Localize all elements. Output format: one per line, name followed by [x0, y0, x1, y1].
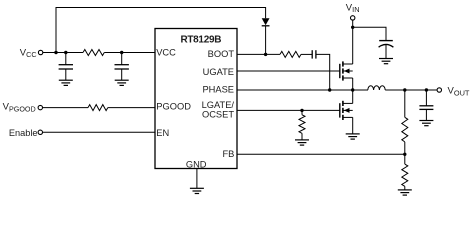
wire VIN to input cap: [353, 27, 386, 40]
node junction FB: [403, 153, 406, 156]
svg-text:RT8129B: RT8129B: [180, 35, 221, 46]
capacitor C2: [121, 53, 123, 65]
wire C3 to PHASE node: [316, 54, 330, 90]
ground below R5: [398, 189, 412, 191]
wire Q1 source to phase: [352, 78, 354, 90]
transistor Q2 (low-side N-MOSFET): [339, 103, 341, 117]
node Enable input terminal: [38, 130, 42, 134]
node VOUT output terminal: [437, 88, 441, 92]
node junction boot cap / phase: [328, 88, 331, 91]
capacitor C5 (input, polarized): [379, 40, 393, 42]
node junction VCC rail / C1: [64, 51, 67, 54]
node VCC input terminal: [38, 50, 42, 54]
ground below R2: [295, 139, 309, 141]
svg-text:PHASE: PHASE: [202, 85, 234, 95]
wire GND pin stub: [196, 169, 198, 189]
svg-text:VIN: VIN: [346, 2, 360, 14]
resistor R6 (PGOOD pull-up): [88, 105, 108, 111]
node junction LGATE / R2: [300, 109, 303, 112]
svg-text:GND: GND: [186, 159, 207, 169]
svg-text:VOUT: VOUT: [448, 86, 470, 98]
wire Q2 drain to phase: [352, 90, 354, 103]
wire R3 to C3: [301, 53, 312, 55]
wire VCC terminal to R1: [43, 52, 83, 54]
capacitor C1: [65, 53, 67, 65]
capacitor C4 (output): [425, 90, 427, 106]
ground below C1: [59, 79, 73, 81]
node junction Vout / C4: [425, 88, 428, 91]
wire VPGOOD terminal to R6: [43, 107, 88, 109]
svg-text:EN: EN: [156, 128, 169, 138]
svg-text:Enable: Enable: [9, 128, 38, 138]
node VPGOOD input terminal: [38, 105, 42, 109]
ground below C4: [419, 120, 433, 122]
svg-text:VCC: VCC: [20, 47, 37, 59]
node junction VCC rail / riser: [54, 51, 57, 54]
wire BOOT pin to R3: [237, 53, 280, 55]
svg-text:OCSET: OCSET: [202, 110, 234, 120]
wire LGATE/OCSET pin to Q2 gate: [237, 109, 340, 111]
ground below C5: [379, 58, 393, 60]
ground below GND pin: [190, 187, 204, 189]
wire R6 to PGOOD pin: [108, 107, 155, 109]
wire VIN terminal down: [352, 20, 354, 27]
ground below C2: [115, 79, 129, 81]
resistor R4 (FB upper): [404, 90, 406, 117]
resistor R1 (VCC filter): [83, 50, 104, 56]
ground below Q2 source: [346, 133, 360, 135]
wire Q1 drain to VIN node: [352, 27, 354, 64]
svg-text:PGOOD: PGOOD: [156, 102, 191, 112]
node junction Vout / FB divider: [403, 88, 406, 91]
wire Q2 source to ground: [352, 117, 354, 133]
wire inductor to VOUT terminal: [385, 89, 437, 91]
svg-text:FB: FB: [223, 149, 235, 159]
svg-text:VCC: VCC: [156, 48, 176, 58]
wire PHASE pin to inductor: [237, 89, 368, 91]
node VIN input terminal: [351, 16, 355, 20]
capacitor C3 (bootstrap, series plates): [311, 50, 313, 58]
svg-text:VPGOOD: VPGOOD: [3, 102, 36, 114]
svg-text:LGATE/: LGATE/: [202, 100, 235, 110]
node junction R1 / C2: [120, 51, 123, 54]
inductor L1: [368, 86, 385, 90]
transistor Q1 (high-side N-MOSFET): [339, 64, 341, 78]
wire FB pin to divider: [237, 153, 405, 155]
node junction phase / Q1 source / Q2 drain: [351, 88, 354, 91]
op-amp U1 RT8129B controller IC body: [155, 29, 237, 169]
wire junction riser to top rail: [56, 8, 266, 53]
diode D1 (bootstrap, VCC rail to BOOT): [262, 18, 270, 25]
node junction VIN: [351, 26, 354, 29]
node junction BOOT / D1: [264, 53, 267, 56]
svg-text:UGATE: UGATE: [203, 67, 234, 77]
wire R1 to VCC pin: [104, 52, 155, 54]
resistor R5 (FB lower): [404, 154, 406, 164]
resistor R3 (boot): [280, 51, 301, 57]
wire Enable to EN pin: [43, 131, 155, 133]
svg-text:BOOT: BOOT: [208, 49, 235, 59]
resistor R2 (OCSET): [301, 110, 303, 114]
wire UGATE pin to Q1 gate: [237, 70, 340, 72]
